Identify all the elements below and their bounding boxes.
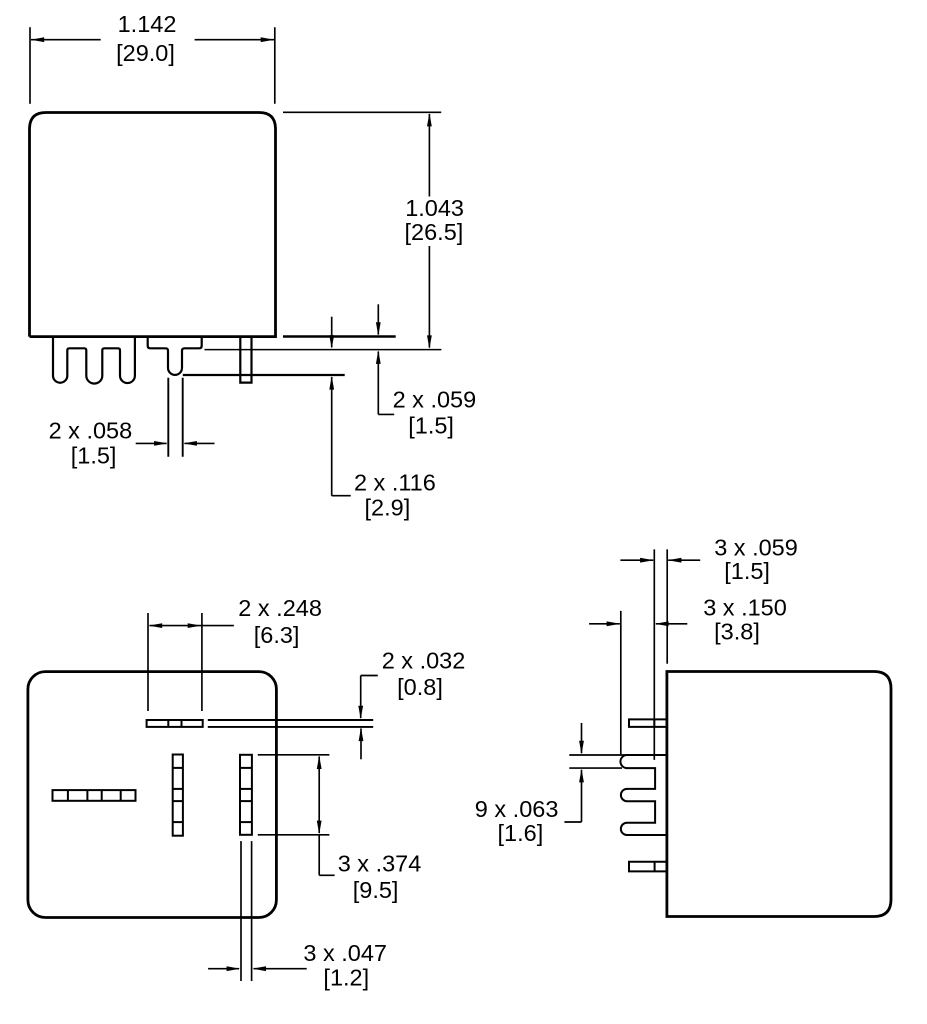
side view serpentine pins <box>620 755 666 835</box>
svg-text:[3.8]: [3.8] <box>714 618 760 644</box>
dimension 3 x .374 [9.5] slot length <box>258 755 422 903</box>
bottom view center slot <box>173 755 183 836</box>
pin tip line <box>183 374 345 376</box>
svg-text:[2.9]: [2.9] <box>365 494 411 520</box>
dimension 2 x .059 [1.5] standoff <box>376 304 476 438</box>
dimension 3 x .047 [1.2] slot width <box>208 841 387 991</box>
side view bottom pin <box>629 862 667 872</box>
dimension 9 x .063 [1.6] loop thickness <box>475 723 628 846</box>
side view relay body <box>667 672 891 917</box>
svg-text:1.043: 1.043 <box>405 195 464 221</box>
bottom view right slot <box>240 755 252 835</box>
svg-text:2 x .058: 2 x .058 <box>49 417 133 443</box>
dimension 1.142 [29.0] width <box>30 11 275 104</box>
slot width reference lines <box>208 720 373 727</box>
svg-text:2 x .032: 2 x .032 <box>382 648 466 674</box>
svg-text:[1.5]: [1.5] <box>408 412 454 438</box>
svg-text:2 x .059: 2 x .059 <box>393 386 477 412</box>
bottom view top slot <box>147 720 203 727</box>
svg-text:1.142: 1.142 <box>118 11 177 37</box>
dimension 3 x .059 [1.5] pin thickness <box>620 534 797 760</box>
dimension 1.043 [26.5] height <box>283 112 464 349</box>
dimension 2 x .032 [0.8] slot width <box>358 648 465 760</box>
dimension 2 x .058 [1.5] pin width <box>49 378 215 469</box>
svg-text:[1.6]: [1.6] <box>498 820 544 846</box>
svg-text:[9.5]: [9.5] <box>353 877 399 903</box>
front view center tab with pin <box>148 337 202 375</box>
seating plane line segment right of body <box>283 335 396 337</box>
svg-text:9 x .063: 9 x .063 <box>475 796 559 822</box>
svg-text:3 x .047: 3 x .047 <box>303 940 387 966</box>
svg-text:3 x .374: 3 x .374 <box>338 851 422 877</box>
dimension 2 x .116 [2.9] pin length <box>329 317 436 521</box>
bottom view relay body <box>28 672 277 918</box>
svg-text:3 x .059: 3 x .059 <box>714 534 798 560</box>
datum line below body <box>205 349 442 351</box>
front view right rectangular pin <box>240 337 251 383</box>
bottom view left slot <box>53 790 136 801</box>
svg-text:[29.0]: [29.0] <box>116 40 175 66</box>
svg-text:[6.3]: [6.3] <box>254 622 300 648</box>
front view relay body <box>30 113 276 337</box>
svg-text:[1.5]: [1.5] <box>71 443 117 469</box>
dimension 3 x .150 [3.8] pin length <box>589 595 787 755</box>
svg-text:[0.8]: [0.8] <box>397 674 443 700</box>
svg-text:[1.5]: [1.5] <box>724 558 770 584</box>
front view left comb pins <box>53 337 135 384</box>
svg-text:[26.5]: [26.5] <box>405 219 464 245</box>
svg-text:2 x .116: 2 x .116 <box>354 469 436 495</box>
svg-text:2 x .248: 2 x .248 <box>238 595 322 621</box>
svg-text:3 x .150: 3 x .150 <box>703 595 787 621</box>
dimension 2 x .248 [6.3] slot spacing <box>148 595 322 711</box>
svg-text:[1.2]: [1.2] <box>323 965 369 991</box>
side view top pin <box>629 719 667 727</box>
